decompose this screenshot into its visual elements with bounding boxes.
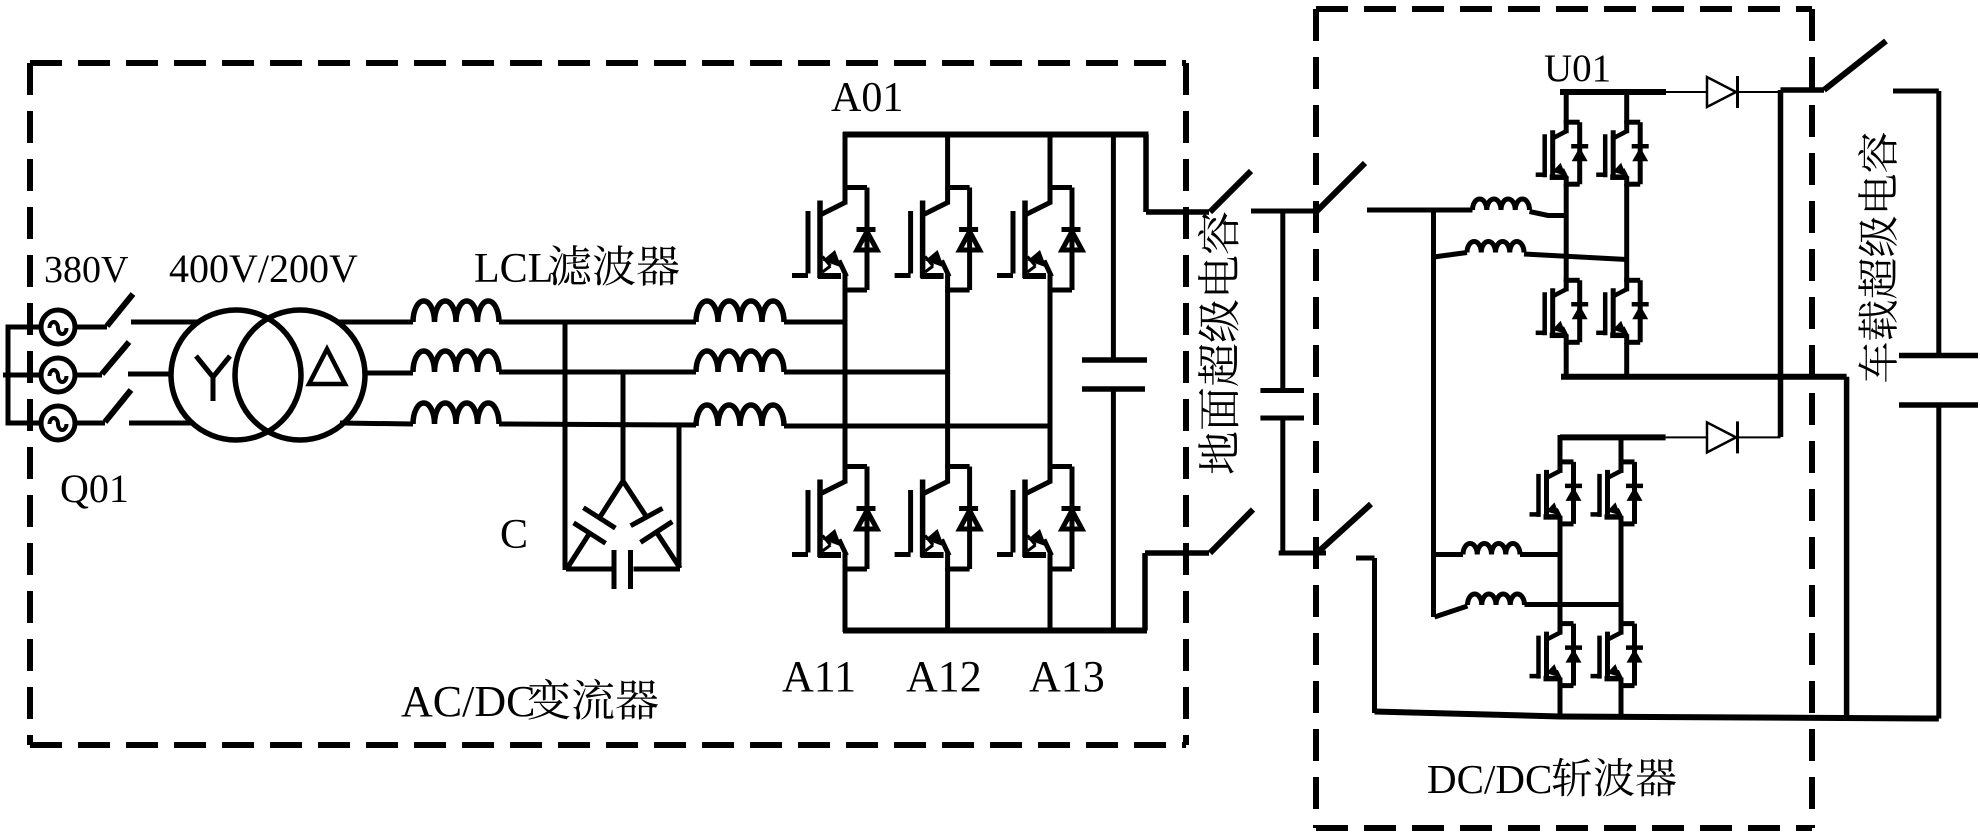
IGBT U01-5 — [1530, 460, 1583, 526]
wire vehicle cap bottom lead — [1936, 407, 1941, 719]
source G1 (380V phase A) — [41, 310, 75, 344]
IGBT U01-7 — [1530, 622, 1583, 688]
IGBT A12 lower — [895, 465, 980, 572]
svg-text:A12: A12 — [906, 652, 982, 701]
svg-text:C: C — [500, 512, 528, 558]
wire L1a to L2a — [499, 320, 696, 325]
label 400V/200V — [169, 246, 358, 291]
inductor L2a — [696, 301, 784, 322]
label ground supercapacitor — [1198, 213, 1239, 474]
inductor L4 (upper right) — [1434, 242, 1627, 260]
inductor L3 (upper left) — [1434, 199, 1566, 215]
inductor L6 (lower right) — [1435, 594, 1622, 617]
svg-text:DC/DC: DC/DC — [1427, 756, 1552, 802]
switch S1 (DC+ from converter) — [1210, 171, 1251, 212]
IGBT A11 upper — [792, 186, 877, 293]
wire leg3 top — [1048, 132, 1053, 189]
wire T1 to L1b — [365, 371, 413, 376]
wire L1b to L2b — [499, 370, 696, 375]
capacitor C delta bottom — [566, 550, 680, 589]
wire output riser — [1781, 90, 1825, 437]
source G2 (380V phase B) — [41, 358, 75, 392]
inductor L2c — [696, 405, 784, 426]
wire DC+ step — [1146, 135, 1209, 213]
wire phase A to switch — [75, 325, 107, 330]
label Q01 — [60, 466, 129, 511]
wire U01 leg4 segs — [1619, 435, 1624, 719]
wire T1 to L1c — [340, 423, 413, 424]
wire T1 to L1a — [337, 320, 413, 325]
wire DC bus bottom — [843, 628, 1147, 634]
wire switch B to transformer — [128, 372, 172, 377]
wire L2b to leg A12 — [784, 370, 948, 375]
capacitor DC link — [1082, 360, 1147, 389]
wire U01 leg2 segs — [1624, 90, 1629, 379]
IGBT U01-2 — [1596, 120, 1649, 186]
wire L2a to leg A11 — [784, 320, 845, 325]
wire chopper lower bus — [1560, 434, 1666, 440]
capacitor ground supercap — [1260, 391, 1304, 419]
label LCL filter — [474, 245, 679, 292]
wire leg2 bottom — [945, 568, 950, 632]
svg-text:Q01: Q01 — [60, 466, 129, 511]
wire leg1 mid — [843, 289, 848, 324]
wire DC bus top — [843, 132, 1149, 138]
IGBT U01-1 — [1536, 120, 1589, 186]
wire DC- step — [1145, 553, 1209, 631]
IGBT A13 upper — [997, 186, 1082, 293]
wire leg2 mid — [945, 289, 950, 374]
svg-text:LCL: LCL — [474, 246, 553, 292]
label vehicle supercapacitor — [1858, 133, 1897, 382]
inductor L1b — [413, 351, 499, 372]
IGBT U01-4 — [1596, 278, 1649, 344]
wire switch C to transformer — [129, 421, 193, 426]
wire tap phase B to C — [621, 372, 626, 483]
wire chopper bottom bus — [1375, 712, 1939, 719]
IGBT A11 lower — [792, 465, 877, 572]
switch S4 (DC- to chopper) — [1317, 504, 1371, 553]
wire leg3 lower — [1048, 426, 1053, 468]
capacitor C delta right — [623, 481, 680, 568]
source G3 (380V phase C) — [41, 406, 75, 440]
wire vehicle cap top lead — [1936, 91, 1941, 353]
wire DC cap bottom lead — [1111, 392, 1116, 631]
wire S5 to vehicle cap — [1893, 89, 1939, 94]
svg-text:400V/200V: 400V/200V — [169, 246, 358, 291]
wire ground-cap bottom lead — [1280, 420, 1285, 553]
switch S2 (DC+ to chopper) — [1316, 163, 1365, 212]
wire U01 leg1 segs — [1564, 90, 1569, 379]
wire leg2 top — [945, 132, 950, 189]
wire node bottom — [1279, 551, 1326, 556]
wire L2c to leg A13 — [784, 424, 1050, 429]
label U01 — [1544, 47, 1611, 90]
wire phase C to switch — [75, 421, 105, 426]
label 380V — [44, 249, 129, 291]
IGBT U01-3 — [1536, 278, 1589, 344]
wire leg1 bottom — [843, 568, 848, 632]
wire L1c to L2c — [499, 424, 696, 425]
IGBT U01-8 — [1591, 622, 1644, 688]
wire U01 leg3 segs — [1558, 435, 1563, 718]
IGBT A12 upper — [895, 186, 980, 293]
svg-text:A13: A13 — [1029, 652, 1105, 701]
inductor L5 (lower left) — [1435, 544, 1561, 555]
capacitor C delta left — [566, 481, 623, 570]
diode D1 — [1707, 76, 1738, 108]
wire switch A to transformer — [131, 320, 198, 325]
IGBT A13 lower — [997, 465, 1082, 572]
svg-text:U01: U01 — [1544, 47, 1611, 90]
inductor L1a — [413, 301, 499, 322]
wire chopper mid bus — [1561, 374, 1847, 380]
transformer T1 400V/200V — [171, 310, 365, 440]
wire DC cap top lead — [1111, 135, 1116, 358]
wire leg1 lower — [843, 322, 848, 468]
wire leg2 lower — [945, 372, 950, 468]
wire leg3 mid — [1048, 289, 1053, 428]
capacitor vehicle supercap — [1899, 356, 1978, 406]
label C — [500, 512, 528, 558]
switch Q01 pole B — [102, 342, 129, 374]
enclosure AC/DC converter dashed box — [30, 63, 1186, 745]
wire S1 to node top — [1251, 209, 1316, 214]
wire leg1 top — [843, 132, 848, 189]
label DC/DC chopper — [1427, 756, 1676, 802]
label A11 — [782, 652, 856, 701]
svg-text:AC/DC: AC/DC — [401, 677, 535, 726]
label A12 — [906, 652, 982, 701]
inductor L1c — [413, 403, 499, 424]
wire S2 to chopper — [1367, 208, 1434, 213]
wire top bus to diode D1 — [1666, 91, 1707, 93]
switch Q01 pole A — [107, 294, 133, 326]
svg-text:A01: A01 — [831, 75, 903, 121]
switch Q01 pole C — [105, 390, 131, 422]
wire D1 to riser — [1738, 91, 1781, 93]
wire chopper top bus — [1560, 89, 1666, 95]
wire D2 to riser — [1738, 436, 1781, 438]
label A01 — [831, 75, 903, 121]
svg-text:A11: A11 — [782, 652, 856, 701]
wire lower bus to diode D2 — [1666, 436, 1707, 438]
label A13 — [1029, 652, 1105, 701]
wire source bus — [3, 325, 41, 426]
svg-text:380V: 380V — [44, 249, 129, 291]
diode D2 — [1707, 421, 1738, 453]
wire chopper input riser — [1431, 208, 1436, 617]
enclosure DC/DC chopper dashed box — [1316, 9, 1812, 828]
switch S3 (DC- from converter) — [1210, 510, 1253, 554]
switch S5 (to vehicle cap) — [1824, 41, 1886, 90]
inductor L2b — [696, 351, 784, 372]
wire S4 down — [1356, 558, 1375, 713]
wire mid bus drop — [1844, 377, 1850, 718]
wire leg3 bottom — [1048, 568, 1053, 632]
IGBT U01-6 — [1591, 460, 1644, 526]
label AC/DC converter — [401, 677, 658, 726]
wire phase B to switch — [75, 373, 102, 378]
wire tap phase C to C — [677, 425, 682, 568]
wire ground-cap top lead — [1280, 211, 1285, 389]
wire tap phase A to C — [563, 322, 568, 570]
